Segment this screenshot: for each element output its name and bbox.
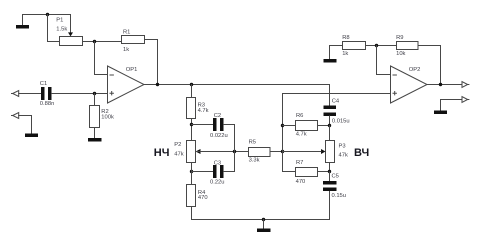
wire bus to OP2 plus [283,93,391,95]
wire to R6 [283,125,296,127]
svg-text:0.88n: 0.88n [40,101,55,107]
label C4 0.015u [332,98,350,124]
svg-text:C4: C4 [332,98,340,104]
resistor R6 [296,121,318,131]
resistor R5 [249,148,271,157]
label R7 470 [296,160,306,185]
potentiometer P1 [60,32,83,45]
label R8 1k [342,35,349,57]
wire gnd to R8 [330,45,343,47]
ground GND1 top-left [16,15,29,29]
svg-text:P3: P3 [339,143,346,149]
wire to C3 [192,171,214,173]
wire P3 to node [329,163,331,172]
svg-text:4.7k: 4.7k [198,108,209,114]
wire C3 to right bus [224,171,235,173]
label R6 4.7k [296,113,307,137]
wire left bus vertical [282,94,284,172]
svg-text:НЧ: НЧ [154,147,170,159]
label НЧ [154,147,170,159]
wire P3 wiper from bus [283,151,322,153]
svg-text:P1: P1 [56,18,63,24]
label C5 0.15u [332,173,347,199]
svg-text:P2: P2 [174,142,181,148]
op-amp OP2 [391,66,428,103]
svg-text:470: 470 [198,195,208,201]
label C1 0.88n [40,81,55,107]
resistor R1 [122,36,145,44]
svg-text:R5: R5 [249,139,256,145]
ground GND5 left of R8 [324,46,337,63]
label OP2 [409,67,421,73]
wire node to OP2 inverting [377,46,391,75]
resistor R9 [397,42,419,50]
node ground tap [262,218,265,221]
wire R2 to ground [94,128,96,139]
wire C4 to node [329,116,331,126]
wire to OP1 inverting input [95,42,108,75]
resistor R3 [187,98,196,119]
label C2 0.022u [210,113,228,139]
node at x47 [46,13,49,16]
svg-text:OP1: OP1 [126,67,138,73]
ground GND4 bottom [257,220,271,233]
op-amp OP1 [108,66,145,103]
wire C2-C3 vertical bus [234,125,236,172]
node P1/R1/opamp-inv [93,40,96,43]
wire to C2 [192,124,214,126]
resistor R2 [90,106,100,128]
label R4 470 [198,190,208,201]
ground GND3 below IN2 [25,134,38,138]
svg-text:1k: 1k [342,51,348,57]
svg-text:C1: C1 [40,81,47,87]
svg-text:OP2: OP2 [409,67,421,73]
input port IN2 [12,113,19,119]
wire C4 drop [329,85,331,106]
label C3 0.22u [210,160,225,185]
node C4/R6 [328,124,331,127]
capacitor C3 [213,165,224,178]
svg-text:R8: R8 [342,35,349,41]
output port OUT1 [462,82,469,88]
svg-text:3.3k: 3.3k [249,157,260,163]
label R1 1k [123,30,130,53]
node P3/R7/C5 [328,170,331,173]
svg-text:C3: C3 [214,160,221,166]
svg-text:1.5k: 1.5k [56,27,67,33]
svg-text:R7: R7 [296,160,303,166]
svg-text:0.22u: 0.22u [210,179,225,185]
capacitor C4 [324,106,337,117]
capacitor C2 [213,118,224,131]
ground GND2 below R2 [88,138,102,142]
wire IN2 to ground [19,116,32,134]
wire OP2 output [427,84,462,86]
node output/R3 [190,83,193,86]
svg-text:0.15u: 0.15u [332,193,347,199]
wire P2 to R4 [191,163,193,185]
wire P1 left leg [48,15,60,42]
wire P2 wiper to R5 [196,151,249,153]
wire OP1 output bus [144,84,330,86]
node R5 bus [281,150,284,153]
label R2 100k [101,109,114,120]
label R3 4.7k [198,102,209,114]
wire node to R2 [94,94,96,106]
node C3 tap [190,170,193,173]
wire R3 to P2 [191,119,193,141]
label R5 3.3k [249,139,260,163]
svg-text:R1: R1 [123,30,130,36]
label OP1 [126,67,138,73]
capacitor C5 [323,181,337,191]
wire gnd to P1 wiper [23,15,71,33]
svg-text:47k: 47k [339,152,348,158]
potentiometer P2 [187,141,201,163]
wire C1 to OP1 plus [52,93,108,95]
node R6 left [281,124,284,127]
svg-text:4.7k: 4.7k [296,131,307,137]
node output [439,83,442,86]
wire P1 right to R1 [83,41,122,43]
output port OUT2 [462,97,469,103]
capacitor C1 [41,87,52,100]
label P3 47k [339,143,348,158]
svg-text:100k: 100k [101,114,114,120]
label R9 10k [396,35,405,57]
wire R9 to output [418,46,441,85]
wire OUT2 to ground [441,100,463,111]
node output/R1 [156,83,159,86]
svg-text:ВЧ: ВЧ [354,147,369,159]
svg-text:R6: R6 [296,113,303,119]
wire R1 feedback to output [145,40,158,85]
wire R7 to right bus [318,171,330,173]
wire R5 to left bus [270,151,283,153]
node R8/R9 feedback [375,44,378,47]
wire bus to R7 [283,171,296,173]
node C2 tap [190,123,193,126]
resistor R8 [343,42,366,50]
svg-text:0.015u: 0.015u [332,118,350,124]
wire R6 to right bus [318,125,330,127]
input port IN1 [12,91,19,97]
svg-text:470: 470 [296,179,306,185]
wire to R3 [191,85,193,98]
wire bottom bus [192,191,330,220]
potentiometer P3 [321,141,335,163]
label P1 1.5k [56,18,67,33]
svg-text:10k: 10k [396,51,405,57]
wire IN1 to C1 [19,93,41,95]
svg-text:1k: 1k [123,47,129,53]
wire C2 to right bus [224,124,235,126]
svg-text:47k: 47k [174,151,183,157]
node wiper bus [233,150,236,153]
wire R8 to R9 [366,45,397,47]
resistor R7 [296,168,318,177]
ground GND6 below OUT2 [434,111,447,115]
svg-text:C2: C2 [214,113,221,119]
label ВЧ [354,147,369,159]
wire node to C5 [329,172,331,182]
node R2 top [93,92,96,95]
svg-text:C5: C5 [332,173,339,179]
label P2 47k [174,142,183,157]
svg-text:R9: R9 [396,35,403,41]
wire node to P3 [329,126,331,141]
resistor R4 [187,185,196,207]
svg-text:0.022u: 0.022u [210,133,228,139]
